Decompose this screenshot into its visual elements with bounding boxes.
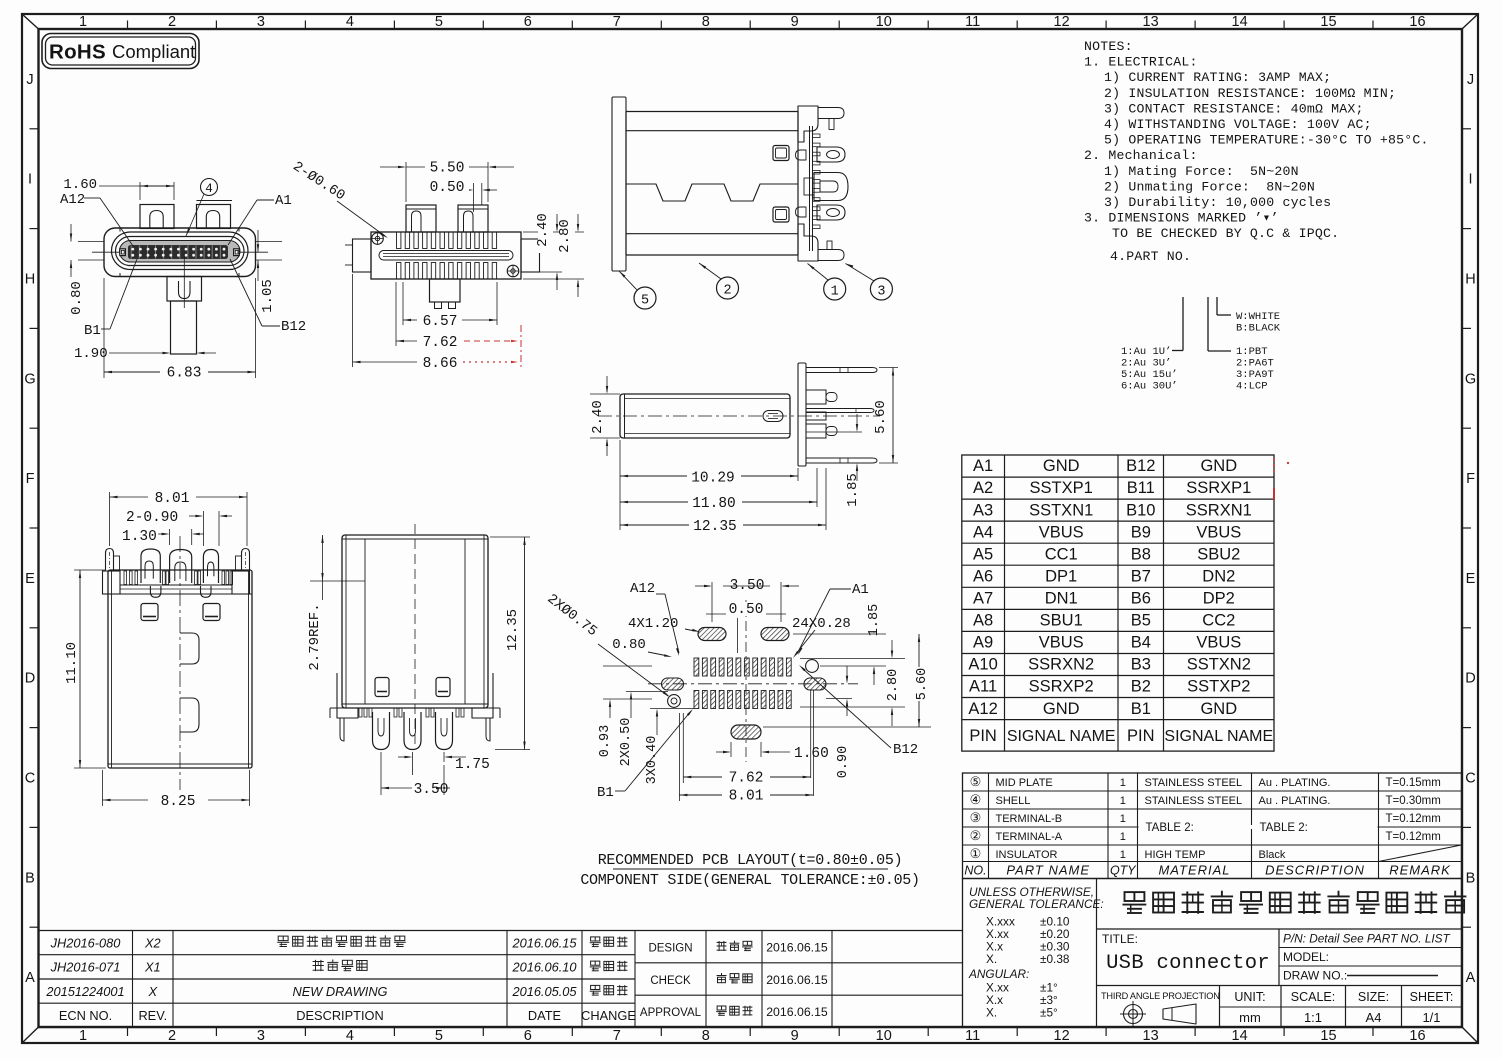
frame tick top 11 — [1016, 21, 1018, 30]
svg-text:Black: Black — [1259, 849, 1286, 861]
view C bottom bracket — [798, 224, 818, 261]
svg-text:TERMINAL-B: TERMINAL-B — [996, 813, 1063, 825]
svg-text:CHANGE: CHANGE — [581, 1008, 636, 1023]
view E staple bumps — [150, 586, 161, 597]
svg-text:12: 12 — [1054, 1028, 1070, 1044]
svg-text:A8: A8 — [973, 612, 993, 630]
frame tick left 2 — [30, 228, 39, 230]
svg-text:5) OPERATING TEMPERATURE:-30°C: 5) OPERATING TEMPERATURE:-30°C TO +85°C. — [1104, 133, 1429, 148]
svg-text:8: 8 — [702, 1028, 710, 1044]
svg-text:SHEET:: SHEET: — [1410, 990, 1454, 1004]
view C right vertical strip — [809, 126, 811, 251]
frame tick left 5 — [30, 527, 39, 529]
svg-text:NEW DRAWING: NEW DRAWING — [292, 984, 387, 999]
svg-text:2: 2 — [723, 284, 731, 299]
svg-text:3: 3 — [877, 285, 885, 300]
view C big pin 2 middle — [814, 173, 848, 201]
svg-text:DESCRIPTION: DESCRIPTION — [1265, 863, 1365, 878]
view A side ext lines — [78, 241, 104, 243]
part no tree line 2 — [1207, 297, 1209, 351]
view F dim 3.50 — [380, 752, 382, 795]
svg-text:SCALE:: SCALE: — [1291, 990, 1335, 1004]
svg-text:Compliant: Compliant — [112, 41, 195, 62]
view D bottom arm — [806, 457, 872, 459]
callout 4 view A — [201, 179, 218, 196]
view E right spike — [242, 549, 250, 571]
svg-text:2016.06.15: 2016.06.15 — [766, 941, 828, 955]
view B center slot — [379, 251, 513, 261]
svg-text:DESCRIPTION: DESCRIPTION — [296, 1008, 383, 1023]
svg-text:USB connector: USB connector — [1106, 952, 1270, 975]
frame tick top 9 — [838, 21, 840, 30]
parts table grid — [963, 773, 1462, 879]
svg-text:1/1: 1/1 — [1422, 1010, 1440, 1025]
svg-text:B1: B1 — [84, 323, 101, 339]
svg-text:SIGNAL NAME: SIGNAL NAME — [1164, 728, 1273, 745]
svg-text:1: 1 — [1120, 777, 1126, 789]
svg-text:A1: A1 — [852, 582, 869, 598]
svg-text:5.60: 5.60 — [873, 400, 889, 434]
svg-text:1: 1 — [79, 14, 87, 30]
svg-text:QTY: QTY — [1110, 864, 1137, 878]
svg-text:2.40: 2.40 — [535, 213, 551, 247]
svg-text:0.93: 0.93 — [598, 725, 613, 757]
svg-text:GND: GND — [1200, 700, 1237, 718]
frame tick bottom 3 — [304, 1027, 306, 1036]
svg-text:1: 1 — [79, 1028, 87, 1044]
frame tick bottom 1 — [127, 1027, 129, 1036]
svg-text:G: G — [1465, 371, 1476, 387]
svg-text:2.80: 2.80 — [886, 669, 901, 701]
svg-text:3.50: 3.50 — [414, 782, 449, 798]
view B pin comb bottom — [397, 263, 401, 280]
svg-text:16: 16 — [1409, 14, 1425, 30]
view C comb teeth — [813, 134, 821, 138]
view A bottom stem — [171, 301, 197, 354]
svg-text:A: A — [25, 970, 35, 986]
svg-text:REV.: REV. — [138, 1008, 167, 1023]
view A pin band dark — [129, 246, 228, 259]
frame tick left 1 — [30, 128, 39, 130]
svg-text:VBUS: VBUS — [1039, 523, 1084, 541]
part no tree line 1 — [1182, 297, 1184, 351]
frame tick top 13 — [1194, 21, 1196, 30]
frame tick left 7 — [30, 727, 39, 729]
svg-text:DESIGN: DESIGN — [648, 943, 692, 955]
svg-text:8.66: 8.66 — [423, 356, 458, 372]
view A end contact left — [120, 249, 126, 256]
frame tick bottom 9 — [838, 1027, 840, 1036]
frame tick right 5 — [1462, 527, 1471, 529]
svg-text:③: ③ — [970, 810, 982, 825]
svg-text:4:LCP: 4:LCP — [1236, 381, 1268, 393]
view G top oval pads — [698, 628, 726, 641]
svg-text:A5: A5 — [973, 545, 993, 563]
svg-text:B12: B12 — [893, 742, 918, 758]
svg-text:PIN: PIN — [1127, 727, 1155, 745]
svg-text:12: 12 — [1054, 14, 1070, 30]
view G dim 5.60 — [763, 726, 931, 728]
view D slot feature — [763, 411, 783, 422]
svg-text:E: E — [1466, 571, 1476, 587]
svg-text:DN1: DN1 — [1045, 590, 1078, 608]
view B dim 2.40 2.80 — [523, 231, 584, 233]
svg-text:3X0.40: 3X0.40 — [645, 736, 660, 785]
view B dim 5.50 — [405, 162, 407, 202]
svg-text:2:PA6T: 2:PA6T — [1236, 358, 1274, 370]
title block tolerance cell — [1096, 879, 1098, 1028]
svg-text:8.01: 8.01 — [729, 789, 764, 805]
svg-text:9: 9 — [791, 1028, 799, 1044]
svg-text:3: 3 — [257, 14, 265, 30]
view A shell outer — [104, 228, 256, 277]
svg-text:4) WITHSTANDING VOLTAGE: 100V: 4) WITHSTANDING VOLTAGE: 100V AC; — [1104, 117, 1372, 132]
svg-text:A1: A1 — [275, 193, 292, 209]
svg-text:VBUS: VBUS — [1196, 523, 1241, 541]
svg-text:SBU2: SBU2 — [1197, 545, 1240, 563]
svg-text:0.90: 0.90 — [836, 746, 851, 778]
view B bottom tab — [430, 279, 461, 302]
svg-text:RoHS: RoHS — [49, 41, 106, 64]
frame tick top 1 — [127, 21, 129, 30]
svg-text:G: G — [24, 371, 35, 387]
svg-text:5: 5 — [435, 14, 443, 30]
view G ext lines left — [603, 665, 652, 667]
view G dim 2.80 — [800, 658, 905, 660]
svg-text:1: 1 — [1120, 813, 1126, 825]
svg-text:SBU1: SBU1 — [1040, 612, 1083, 630]
frame tick bottom 11 — [1016, 1027, 1018, 1036]
svg-text:4X1.20: 4X1.20 — [628, 616, 678, 632]
svg-text:T=0.12mm: T=0.12mm — [1386, 813, 1441, 825]
svg-text:6.57: 6.57 — [423, 314, 458, 330]
svg-text:1.30: 1.30 — [122, 529, 157, 545]
svg-text:SIZE:: SIZE: — [1358, 990, 1389, 1004]
view E body — [108, 570, 252, 768]
view E left spike — [106, 549, 114, 571]
svg-text:11.10: 11.10 — [64, 642, 80, 684]
view A pin band separators — [130, 246, 132, 259]
svg-text:STAINLESS STEEL: STAINLESS STEEL — [1145, 795, 1243, 807]
svg-text:I: I — [28, 172, 32, 188]
frame tick bottom 6 — [571, 1027, 573, 1036]
svg-text:2X0.50: 2X0.50 — [619, 718, 634, 767]
svg-text:SSRXN1: SSRXN1 — [1186, 501, 1252, 519]
frame tick left 8 — [30, 826, 39, 828]
svg-text:GND: GND — [1043, 700, 1080, 718]
svg-text:20151224001: 20151224001 — [45, 984, 124, 999]
svg-text:5.60: 5.60 — [915, 668, 930, 700]
dim 6.83 view A — [103, 278, 105, 378]
view A pin band white dots — [131, 248, 134, 251]
frame tick left 9 — [30, 926, 39, 928]
svg-text:±0.38: ±0.38 — [1040, 952, 1070, 966]
svg-text:A4: A4 — [1366, 1010, 1382, 1025]
svg-text:15: 15 — [1320, 1028, 1336, 1044]
frame tick right 4 — [1462, 427, 1471, 429]
svg-text:1.85: 1.85 — [867, 604, 882, 636]
svg-text:JH2016-080: JH2016-080 — [50, 936, 122, 951]
svg-text:W:WHITE: W:WHITE — [1236, 311, 1280, 323]
svg-text:2.40: 2.40 — [590, 400, 606, 434]
svg-text:APPROVAL: APPROVAL — [640, 1007, 702, 1019]
view G pin pads bottom row — [694, 691, 699, 709]
view D body — [620, 394, 790, 438]
company name (CJK strokes) — [1125, 892, 1145, 901]
svg-text:B: B — [25, 870, 35, 886]
svg-text:1.05: 1.05 — [260, 279, 276, 313]
svg-text:JH2016-071: JH2016-071 — [50, 960, 121, 975]
view D dim 10.29 — [619, 440, 621, 530]
svg-text:H: H — [1465, 272, 1475, 288]
svg-text:SIGNAL NAME: SIGNAL NAME — [1007, 728, 1116, 745]
svg-text:4: 4 — [205, 182, 213, 196]
svg-text:C: C — [25, 771, 35, 787]
svg-text:±5°: ±5° — [1040, 1006, 1058, 1020]
svg-text:TABLE 2:: TABLE 2: — [1260, 822, 1308, 834]
view B right wing — [521, 239, 540, 272]
callout 2 — [717, 277, 739, 299]
frame tick bottom 8 — [749, 1027, 751, 1036]
part no tree line 3 — [1216, 297, 1218, 315]
svg-text:A12: A12 — [630, 581, 655, 597]
svg-text:SSRXP1: SSRXP1 — [1186, 479, 1251, 497]
svg-text:ECN NO.: ECN NO. — [59, 1008, 112, 1023]
frame tick right 1 — [1462, 128, 1471, 130]
view E center notch 1 — [180, 633, 199, 664]
view F collar — [342, 703, 488, 705]
svg-text:B6: B6 — [1131, 590, 1151, 608]
svg-text:7: 7 — [613, 14, 621, 30]
view F comb teeth — [359, 708, 362, 717]
view E comb teeth — [124, 571, 127, 585]
svg-text:5: 5 — [641, 294, 649, 309]
company cell line — [1097, 928, 1462, 930]
frame tick top 8 — [749, 21, 751, 30]
svg-text:NOTES:: NOTES: — [1084, 39, 1133, 54]
svg-text:PIN: PIN — [969, 727, 997, 745]
svg-text:0.80: 0.80 — [69, 281, 85, 315]
view G dim 7.62 — [682, 713, 684, 783]
svg-text:TERMINAL-A: TERMINAL-A — [996, 831, 1063, 843]
svg-text:10: 10 — [876, 14, 892, 30]
svg-text:B:BLACK: B:BLACK — [1236, 323, 1281, 335]
svg-text:MODEL:: MODEL: — [1283, 950, 1329, 964]
svg-text:TO BE CHECKED BY Q.C & IPQC.: TO BE CHECKED BY Q.C & IPQC. — [1112, 226, 1339, 241]
svg-text:STAINLESS STEEL: STAINLESS STEEL — [1145, 777, 1243, 789]
svg-text:DP1: DP1 — [1045, 568, 1077, 586]
frame tick left 3 — [30, 327, 39, 329]
svg-text:INSULATOR: INSULATOR — [996, 849, 1058, 861]
view E center notch 2 — [180, 698, 199, 732]
svg-text:14: 14 — [1232, 14, 1248, 30]
svg-text:CHECK: CHECK — [650, 975, 691, 987]
view C top bracket — [798, 106, 818, 142]
svg-text:9: 9 — [791, 14, 799, 30]
view B top tab left — [406, 205, 436, 232]
svg-text:0.50: 0.50 — [729, 602, 764, 618]
svg-text:2016.05.05: 2016.05.05 — [511, 984, 577, 999]
view C top pin — [818, 108, 844, 119]
view A inner stadium 1 — [112, 232, 249, 270]
svg-text:16: 16 — [1409, 1028, 1425, 1044]
view C left plate — [612, 97, 626, 271]
svg-text:Au . PLATING.: Au . PLATING. — [1259, 795, 1331, 807]
view F left wing — [337, 673, 358, 718]
svg-text:SSTXP1: SSTXP1 — [1030, 479, 1093, 497]
svg-text:A11: A11 — [969, 678, 997, 696]
frame tick bottom 10 — [927, 1027, 929, 1036]
svg-text:1.60: 1.60 — [794, 746, 829, 762]
svg-text:12.35: 12.35 — [693, 519, 737, 535]
svg-text:2016.06.10: 2016.06.10 — [511, 960, 577, 975]
svg-text:CC2: CC2 — [1202, 612, 1235, 630]
frame tick top 12 — [1105, 21, 1107, 30]
svg-text:2. Mechanical:: 2. Mechanical: — [1084, 148, 1198, 163]
svg-text:T=0.30mm: T=0.30mm — [1386, 795, 1441, 807]
svg-text:mm: mm — [1239, 1010, 1261, 1025]
svg-text:11.80: 11.80 — [692, 496, 736, 512]
svg-text:A9: A9 — [973, 634, 993, 652]
svg-text:3) CONTACT RESISTANCE: 40mΩ MA: 3) CONTACT RESISTANCE: 40mΩ MAX; — [1104, 101, 1364, 116]
view D right bracket — [798, 363, 806, 466]
svg-text:REMARK: REMARK — [1389, 863, 1451, 878]
pin table grid — [962, 455, 1274, 751]
svg-text:E: E — [25, 571, 35, 587]
third angle projection cell — [1219, 986, 1221, 1028]
callout 3 — [870, 278, 892, 300]
frame tick right 9 — [1462, 926, 1471, 928]
view B body — [371, 232, 521, 279]
view F window left — [375, 678, 389, 697]
svg-text:A6: A6 — [973, 568, 993, 586]
view F center dashed line — [414, 524, 416, 748]
svg-text:1) Mating Force: 5N~20N: 1) Mating Force: 5N~20N — [1104, 164, 1299, 179]
view C bottom pin — [818, 250, 844, 261]
svg-text:B10: B10 — [1126, 501, 1155, 519]
svg-text:0.50: 0.50 — [430, 180, 465, 196]
svg-text:VBUS: VBUS — [1039, 634, 1084, 652]
svg-text:7.62: 7.62 — [423, 335, 458, 351]
frame tick bottom 7 — [660, 1027, 662, 1036]
view G dim 8.01 — [678, 713, 680, 801]
svg-text:2:Au 3U’: 2:Au 3U’ — [1121, 358, 1171, 370]
svg-text:2016.06.15: 2016.06.15 — [766, 1005, 828, 1019]
svg-text:7: 7 — [613, 1028, 621, 1044]
view A tongue gray band — [120, 241, 241, 263]
svg-text:5.50: 5.50 — [430, 161, 465, 177]
view C big pin 1 — [817, 147, 845, 162]
svg-text:11: 11 — [965, 14, 980, 30]
view A bottom tab — [167, 277, 202, 302]
view D blocks — [806, 390, 826, 404]
unit scale size sheet cells — [1280, 986, 1282, 1028]
svg-text:1.90: 1.90 — [74, 346, 108, 362]
frame tick bottom 4 — [393, 1027, 395, 1036]
svg-text:X2: X2 — [144, 936, 161, 951]
svg-text:13: 13 — [1143, 1028, 1159, 1044]
frame tick top 4 — [393, 21, 395, 30]
view B top tab right — [458, 205, 488, 232]
view C square window bottom — [773, 207, 789, 222]
svg-text:B1: B1 — [597, 785, 614, 801]
svg-text:A12: A12 — [968, 700, 997, 718]
svg-text:4.PART NO.: 4.PART NO. — [1110, 249, 1191, 264]
pin table red revision marks — [1273, 458, 1275, 472]
svg-text:8.25: 8.25 — [161, 794, 196, 810]
view B screw right — [507, 265, 519, 277]
svg-text:1:1: 1:1 — [1304, 1010, 1322, 1025]
svg-text:2: 2 — [168, 14, 176, 30]
svg-text:13: 13 — [1143, 14, 1159, 30]
svg-text:T=0.12mm: T=0.12mm — [1386, 831, 1441, 843]
svg-text:SHELL: SHELL — [996, 795, 1031, 807]
svg-text:2.80: 2.80 — [557, 219, 573, 253]
frame tick right 3 — [1462, 327, 1471, 329]
svg-text:1.85: 1.85 — [845, 473, 861, 507]
svg-text:DATE: DATE — [528, 1008, 561, 1023]
view D mid pins — [806, 408, 870, 410]
svg-text:1: 1 — [831, 285, 839, 300]
view E tab 1 — [141, 549, 160, 583]
view A shell notches — [119, 228, 121, 232]
view E collar lines — [120, 584, 232, 586]
frame tick top 6 — [571, 21, 573, 30]
svg-text:5: 5 — [435, 1028, 443, 1044]
svg-text:1: 1 — [1120, 849, 1126, 861]
pn model draw rows — [1279, 947, 1462, 949]
view E centerline — [179, 536, 181, 790]
frame tick bottom 15 — [1372, 1027, 1374, 1036]
svg-text:SSTXP2: SSTXP2 — [1187, 678, 1250, 696]
svg-text:10: 10 — [876, 1028, 892, 1044]
svg-text:H: H — [25, 272, 35, 288]
view G bottom oval pad — [731, 725, 761, 739]
svg-text:X.: X. — [986, 1006, 997, 1020]
svg-text:T=0.15mm: T=0.15mm — [1386, 777, 1441, 789]
view B dim 0.50 — [473, 183, 475, 212]
view G dim 1.85 right — [793, 633, 886, 635]
frame tick left 4 — [30, 427, 39, 429]
svg-text:F: F — [1466, 471, 1475, 487]
svg-text:HIGH TEMP: HIGH TEMP — [1145, 849, 1206, 861]
svg-text:TABLE 2:: TABLE 2: — [1146, 822, 1194, 834]
frame tick top 10 — [927, 21, 929, 30]
svg-text:DRAW NO.:: DRAW NO.: — [1283, 969, 1347, 983]
view B pin comb top — [397, 232, 401, 249]
svg-text:SSRXN2: SSRXN2 — [1028, 656, 1094, 674]
view G dim 0.50 — [737, 618, 739, 653]
svg-text:2) Unmating Force: 8N~20N: 2) Unmating Force: 8N~20N — [1104, 179, 1315, 194]
svg-text:SSTXN2: SSTXN2 — [1187, 656, 1251, 674]
svg-text:1:PBT: 1:PBT — [1236, 346, 1268, 358]
frame tick top 7 — [660, 21, 662, 30]
parts table insulator remark diagonal — [1379, 845, 1462, 862]
svg-text:TITLE:: TITLE: — [1102, 932, 1138, 946]
view E square window left — [141, 604, 158, 621]
svg-text:NO.: NO. — [964, 864, 986, 878]
view G left oval pad — [662, 678, 684, 690]
view F window right — [436, 678, 450, 697]
frame tick bottom 14 — [1283, 1027, 1285, 1036]
svg-text:A4: A4 — [973, 523, 993, 541]
view A end contact right — [234, 249, 240, 256]
svg-text:B12: B12 — [1126, 457, 1155, 475]
svg-text:A12: A12 — [60, 192, 85, 208]
svg-text:0.80: 0.80 — [612, 637, 646, 653]
svg-text:8: 8 — [702, 14, 710, 30]
view A top tab left — [140, 205, 174, 229]
